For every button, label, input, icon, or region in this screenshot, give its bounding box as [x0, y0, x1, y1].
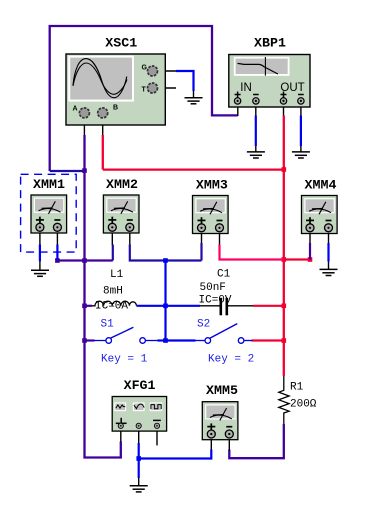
wire blue XBP1 IN- to ground [255, 116, 257, 147]
wire S1 left stub [85, 339, 95, 341]
junction blue S1 [163, 338, 168, 343]
svg-text:C1: C1 [217, 269, 231, 281]
multimeter XMM5 [202, 383, 238, 440]
svg-text:XMM1: XMM1 [33, 177, 65, 192]
wire red S2 right [252, 339, 284, 341]
wire navy horizontal loop to junction [50, 170, 85, 172]
junction red XMM4 plus [308, 257, 313, 262]
wire blue XMM5 plus to XFG1 [139, 450, 212, 459]
junction blue L1 [163, 304, 168, 309]
wire XFG1 minus stub [156, 430, 158, 445]
multimeter XMM1 [31, 177, 67, 233]
wire blue XFG1 common down [138, 443, 140, 478]
wire blue vertical L1C1 [164, 261, 166, 341]
svg-text:Key = 2: Key = 2 [208, 354, 254, 366]
wire navy XMM2 plus [112, 245, 114, 261]
wire XBP1 IN+ stem [237, 103, 239, 116]
wire red vertical main [283, 116, 285, 377]
wire XSC1 T stub [157, 87, 176, 89]
ground below XMM1 [31, 270, 49, 276]
junction node A1 [82, 168, 87, 173]
wire blue C1 left lead [166, 305, 201, 307]
svg-text:8mH: 8mH [103, 286, 123, 298]
wire L1 left stub [85, 305, 93, 307]
wire XBP1 IN- stem [255, 103, 257, 116]
multimeter XMM3 [193, 178, 229, 234]
svg-text:R1: R1 [290, 382, 304, 394]
svg-text:50nF: 50nF [200, 282, 226, 294]
wire outer purple loop XSC1.A net to XBP1 IN+ [50, 26, 238, 171]
wire XMM1 plus stem [39, 230, 41, 245]
wire XSC1 G blue to ground [176, 71, 194, 91]
wire XMM3 minus stem [219, 230, 221, 245]
resistor R1 [279, 376, 317, 424]
wire ground stem XMM1 [39, 261, 41, 270]
junction red row260 [282, 257, 287, 262]
junction red S2 [282, 338, 287, 343]
junction blue XFG1 [136, 456, 141, 461]
wire XMM5 plus stem [210, 439, 212, 451]
svg-text:XMM5: XMM5 [206, 383, 238, 398]
wire blue XMM1 plus [39, 245, 41, 262]
ground below XBP1 OUT- [292, 152, 310, 158]
wire XSC1 G stub [157, 70, 176, 72]
wire red C1 right [253, 305, 284, 307]
junction node A3 [82, 304, 87, 309]
inductor L1 [92, 269, 136, 313]
svg-text:S2: S2 [197, 319, 210, 331]
oscilloscope XSC1 [66, 36, 165, 126]
svg-text:S1: S1 [101, 319, 115, 331]
svg-text:G: G [142, 64, 148, 71]
svg-text:XMM3: XMM3 [196, 178, 228, 193]
wire red horizontal top [103, 168, 284, 170]
svg-text:Key = 1: Key = 1 [101, 354, 148, 366]
svg-text:XSC1: XSC1 [105, 36, 137, 51]
selection box around XMM1 [21, 174, 77, 252]
wire ground stem IN- [255, 146, 257, 152]
wire blue S1 right lead [158, 339, 166, 341]
wire ground stem XFG1 [138, 478, 140, 486]
function generator XFG1 [112, 378, 166, 431]
wire purple XMM4 plus [309, 243, 311, 260]
svg-text:IN: IN [240, 82, 252, 94]
wire XMM1 minus stem [56, 230, 58, 245]
wire XSC1 B stem [102, 117, 104, 135]
wire XMM4 minus stem [328, 230, 330, 244]
wire XFG1 plus stem [120, 430, 122, 442]
ground below XMM4 [320, 269, 338, 275]
wire navy XMM3 plus [200, 243, 202, 261]
wire purple to XFG1 plus [85, 341, 121, 458]
multimeter XMM4 [302, 178, 338, 234]
svg-text:XFG1: XFG1 [124, 378, 156, 393]
switch S1 [94, 319, 159, 366]
wire XMM5 minus stem [228, 439, 230, 451]
wire ground stem OUT- [300, 146, 302, 152]
svg-text:XMM4: XMM4 [305, 178, 337, 193]
multimeter XMM2 [103, 177, 139, 233]
junction XMM1 minus [55, 258, 60, 263]
junction blue row260 [163, 258, 168, 263]
wire XFG1 common stem [138, 430, 140, 444]
wire purple R1 bottom to XMM5 minus [229, 424, 283, 459]
wire blue XMM4 minus [327, 243, 329, 262]
wire red row260 to XMM4 [284, 258, 310, 260]
wire blue S2 left lead [166, 339, 196, 341]
wire XMM2 minus stem [129, 230, 131, 245]
svg-text:B: B [113, 105, 118, 112]
svg-text:IC=0A: IC=0A [95, 301, 128, 313]
wire navy XMM2 minus [130, 245, 202, 261]
svg-text:200Ω: 200Ω [290, 399, 317, 411]
wire XMM3 plus stem [201, 230, 203, 245]
junction node A2 [82, 258, 87, 263]
wire ground stem G [193, 91, 195, 98]
wire XMM2 plus stem [111, 230, 113, 245]
wire XMM4 plus stem [309, 230, 311, 244]
ground below XBP1 IN- [247, 152, 265, 158]
junction node A4 [82, 338, 87, 343]
wire blue L1 right lead [137, 305, 166, 307]
svg-text:XBP1: XBP1 [254, 36, 286, 51]
wire horizontal A row y260 [57, 259, 112, 261]
capacitor C1 [199, 269, 232, 316]
svg-text:L1: L1 [110, 269, 124, 281]
svg-text:T: T [142, 86, 147, 93]
wire purple vertical A net [83, 135, 85, 341]
wire pink XMM3 minus [220, 245, 284, 260]
wire XBP1 OUT+ stem [283, 103, 285, 116]
wire C1 right lead black [227, 305, 253, 307]
junction red C1 [282, 304, 287, 309]
bode plotter XBP1 [229, 36, 310, 108]
switch S2 [195, 319, 255, 366]
wire blue XBP1 OUT- to ground [300, 116, 302, 147]
svg-text:A: A [73, 106, 78, 113]
wire XSC1 A stem [83, 117, 85, 135]
ground below XFG1 [130, 486, 148, 492]
ground below XSC1 G [185, 98, 203, 104]
junction red top [282, 167, 287, 172]
wire red XSC1 B vertical [102, 135, 104, 170]
wire blue XMM1 minus [56, 245, 58, 261]
svg-text:XMM2: XMM2 [106, 177, 138, 192]
wire ground stem XMM4 [328, 262, 330, 270]
wire XBP1 OUT- stem [300, 103, 302, 116]
